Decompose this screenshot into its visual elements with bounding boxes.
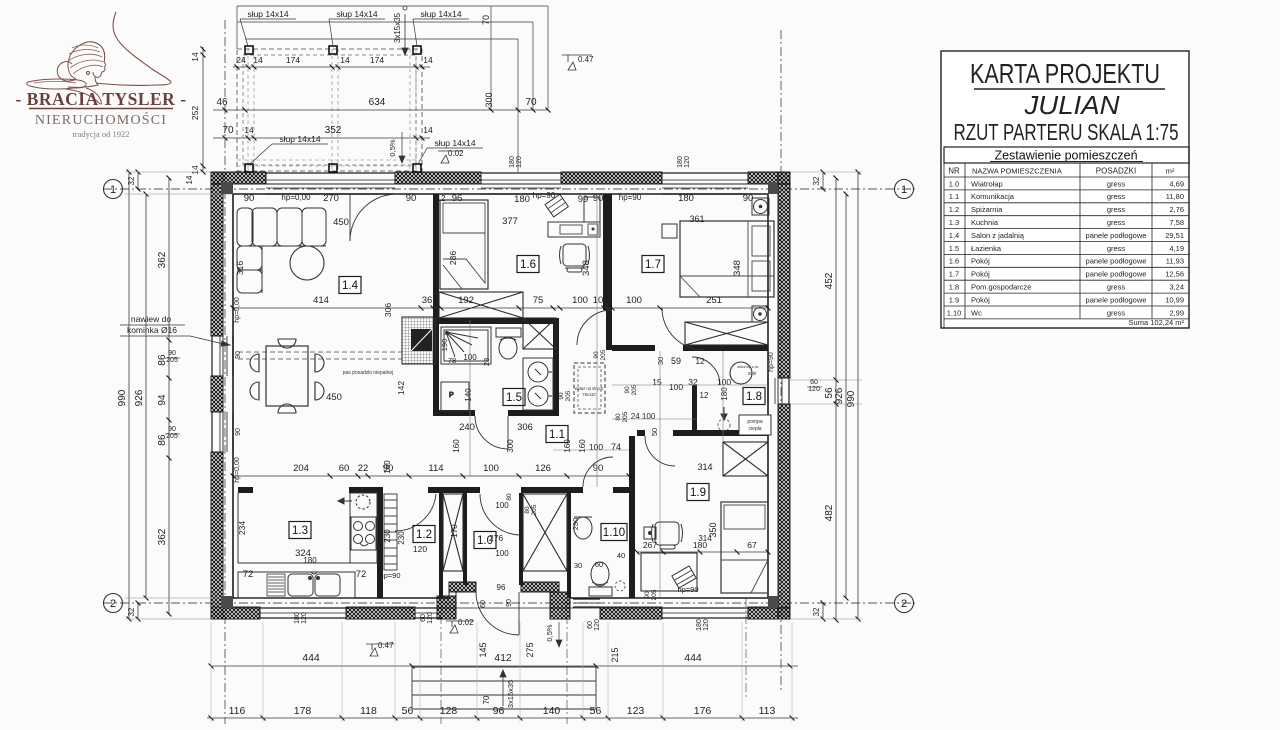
svg-text:90: 90 (506, 599, 513, 607)
double bed room 1.7 (680, 221, 774, 297)
wall living|1.6 vertical (433, 194, 439, 324)
svg-text:60: 60 (339, 463, 350, 474)
svg-text:450: 450 (326, 392, 342, 403)
svg-text:348: 348 (732, 260, 743, 276)
svg-text:1.3: 1.3 (292, 525, 308, 537)
entrance recess upper wall right (521, 582, 559, 592)
room label 1.6 (517, 256, 539, 273)
svg-text:100: 100 (483, 463, 499, 474)
svg-text:205: 205 (622, 411, 629, 422)
svg-text:32: 32 (127, 176, 136, 185)
door arc pantry (395, 494, 436, 531)
svg-text:234: 234 (237, 521, 247, 535)
svg-text:180: 180 (720, 387, 729, 401)
svg-text:1.4: 1.4 (342, 280, 359, 292)
svg-text:60: 60 (595, 560, 603, 569)
svg-text:Pokój: Pokój (971, 257, 990, 266)
svg-text:300: 300 (484, 92, 494, 107)
room label 1.3 (289, 522, 311, 539)
svg-text:12: 12 (437, 194, 446, 203)
porch dashed horizontals (237, 159, 422, 161)
svg-text:300: 300 (506, 439, 515, 453)
svg-text:2,99: 2,99 (1169, 308, 1184, 317)
svg-text:KARTA PROJEKTU: KARTA PROJEKTU (970, 58, 1160, 89)
office chair room 1.9 (652, 522, 683, 549)
floor drain wc (615, 581, 625, 591)
svg-text:Wc: Wc (971, 308, 982, 317)
wardrobe room 1.6 (439, 292, 523, 318)
right dim chain 926 (845, 194, 847, 598)
svg-text:990: 990 (117, 389, 128, 406)
svg-text:100: 100 (589, 442, 603, 452)
svg-text:120: 120 (301, 612, 308, 624)
bed room 1.6 (440, 200, 488, 289)
door arc wiatrolap (480, 494, 521, 535)
svg-text:Pokój: Pokój (971, 270, 990, 279)
svg-text:1.10: 1.10 (603, 527, 625, 539)
svg-text:286: 286 (448, 251, 458, 265)
svg-text:80: 80 (506, 493, 513, 501)
svg-text:1.8: 1.8 (746, 391, 762, 403)
svg-text:11,80: 11,80 (1166, 192, 1184, 201)
svg-text:3,24: 3,24 (1169, 283, 1184, 292)
ceiling vent room 1.7 top (752, 198, 769, 215)
room label 1.9 (687, 484, 709, 501)
svg-text:362: 362 (157, 528, 168, 545)
svg-text:90: 90 (743, 193, 754, 204)
window top 180 room 1.6 (481, 173, 561, 194)
svg-text:panele podłogowe: panele podłogowe (1086, 270, 1147, 279)
right 32 labels (822, 172, 824, 189)
exterior wall right inner masonry line (767, 194, 769, 598)
svg-text:- BRACIA TYSLER -: - BRACIA TYSLER - (15, 89, 186, 109)
corridor chain y476 (233, 475, 629, 477)
svg-text:80: 80 (524, 506, 531, 514)
door arc room 1.6 (577, 310, 612, 345)
interior extension line vertical x470 (469, 320, 471, 476)
bottom dim line 444 412 444 (211, 665, 798, 667)
svg-text:180: 180 (509, 156, 516, 168)
svg-text:słup 14x14: słup 14x14 (247, 9, 288, 19)
svg-text:444: 444 (302, 652, 320, 664)
window top 270 living room (266, 173, 395, 194)
svg-text:178: 178 (294, 705, 312, 717)
left dim chain 990 (128, 172, 130, 619)
window bottom 180/120 room 1.9 (662, 608, 748, 618)
window bottom 60/120 wc (573, 599, 600, 607)
bottom steps (412, 667, 596, 709)
svg-text:2: 2 (110, 598, 116, 610)
svg-text:116: 116 (229, 705, 246, 717)
svg-text:hp=90: hp=90 (533, 191, 556, 200)
svg-text:14: 14 (185, 175, 194, 184)
svg-text:215: 215 (610, 647, 620, 662)
table grid lines (944, 163, 1189, 328)
svg-text:100: 100 (495, 501, 509, 510)
axis line 1 horizontal (103, 188, 915, 190)
svg-text:1.1: 1.1 (949, 192, 959, 201)
svg-text:1.8: 1.8 (949, 283, 959, 292)
svg-text:120: 120 (516, 156, 523, 168)
svg-text:180: 180 (677, 156, 684, 168)
entrance recess upper wall left (449, 582, 476, 592)
svg-text:96: 96 (497, 583, 506, 592)
svg-text:12: 12 (700, 391, 709, 400)
svg-text:40: 40 (617, 551, 625, 560)
svg-text:90: 90 (593, 351, 600, 359)
svg-text:60: 60 (587, 621, 594, 629)
svg-text:252: 252 (190, 106, 200, 120)
wall 1.7 bottom left segment (612, 345, 655, 351)
svg-text:ciepła: ciepła (748, 426, 761, 432)
masonry corner block top-right (768, 182, 778, 194)
svg-text:72: 72 (356, 569, 367, 580)
svg-text:80: 80 (615, 413, 622, 421)
exterior wall left hatch segments (211, 172, 223, 336)
dim chain y308 living-160 (233, 307, 768, 309)
svg-text:160: 160 (578, 439, 587, 453)
svg-text:2,76: 2,76 (1169, 205, 1184, 214)
svg-text:32: 32 (688, 377, 698, 387)
svg-text:180: 180 (514, 194, 530, 205)
svg-text:123: 123 (627, 705, 645, 717)
svg-text:180: 180 (303, 556, 317, 565)
svg-text:180: 180 (678, 193, 694, 204)
svg-text:12: 12 (603, 299, 610, 307)
svg-text:60: 60 (480, 600, 487, 608)
window right 60/120 (768, 378, 789, 404)
svg-text:15: 15 (652, 377, 662, 387)
svg-text:348: 348 (581, 260, 592, 276)
svg-text:1.9: 1.9 (949, 295, 959, 304)
svg-text:hp=0,00: hp=0,00 (234, 457, 241, 483)
porch column bottom left (245, 164, 253, 172)
svg-text:200l: 200l (748, 371, 757, 376)
right dim chain 990 (857, 172, 859, 619)
svg-text:56: 56 (590, 705, 602, 717)
wall 1.7 bottom right segment (683, 345, 768, 351)
window bottom 60/120 pantry (415, 608, 442, 618)
svg-text:90: 90 (168, 350, 176, 357)
svg-text:90: 90 (235, 428, 242, 436)
axis vertical bottom x567 (566, 598, 568, 724)
room label 1.8 (743, 388, 765, 405)
exterior wall left inner masonry line (232, 194, 234, 598)
svg-text:120: 120 (413, 544, 427, 554)
axis vertical bottom x746 (745, 598, 747, 700)
room label 1.1 (546, 426, 568, 443)
svg-text:314: 314 (698, 534, 712, 543)
svg-text:24 100: 24 100 (631, 412, 656, 421)
bottom extension lines (210, 622, 212, 722)
exterior wall bottom hatch segments (211, 607, 260, 619)
svg-text:362: 362 (157, 251, 168, 268)
axis circle 1 right (895, 180, 914, 199)
svg-text:70: 70 (481, 15, 491, 25)
svg-text:120: 120 (684, 156, 691, 168)
room label 1.5 (503, 389, 525, 406)
svg-text:113: 113 (759, 705, 776, 717)
svg-text:słup 14x14: słup 14x14 (279, 134, 320, 144)
svg-text:29,51: 29,51 (1165, 231, 1184, 240)
svg-text:190: 190 (440, 339, 449, 352)
svg-text:10,99: 10,99 (1165, 295, 1184, 304)
svg-text:174: 174 (286, 55, 300, 65)
fireplace dark core (411, 329, 432, 351)
svg-text:32: 32 (812, 176, 821, 185)
svg-text:1.2: 1.2 (416, 529, 432, 541)
wall 1.8 left (692, 385, 697, 435)
svg-text:128: 128 (440, 705, 458, 717)
svg-text:926: 926 (134, 389, 145, 406)
nightstand room 1.7 (662, 224, 677, 238)
washing machine bathroom (441, 382, 469, 411)
svg-text:panele podłogowe: panele podłogowe (1086, 231, 1147, 240)
svg-text:267: 267 (643, 540, 657, 550)
svg-text:444: 444 (684, 652, 702, 664)
axis line 2 horizontal (103, 602, 915, 604)
svg-text:100: 100 (495, 549, 509, 558)
svg-text:634: 634 (369, 97, 386, 108)
svg-text:1.7: 1.7 (645, 259, 661, 271)
kitchen counter line (238, 493, 350, 563)
porch column bottom right (413, 164, 421, 172)
svg-text:0.02: 0.02 (458, 618, 474, 627)
svg-text:14: 14 (340, 55, 350, 65)
dining chairs (278, 339, 296, 348)
svg-text:1.0: 1.0 (949, 179, 959, 188)
svg-text:100: 100 (717, 377, 731, 387)
entrance recess jamb lines (455, 592, 457, 598)
svg-text:1.7: 1.7 (949, 270, 959, 279)
svg-text:100: 100 (626, 295, 642, 306)
svg-text:1.6: 1.6 (949, 257, 959, 266)
svg-text:10: 10 (593, 295, 604, 306)
svg-text:70: 70 (482, 695, 491, 704)
svg-text:74: 74 (611, 442, 621, 452)
door arc bathroom (475, 416, 508, 449)
svg-text:14: 14 (244, 125, 254, 135)
kitchen dishwasher striped (267, 574, 285, 596)
wardrobe room 1.9 (723, 442, 768, 476)
logo Bracia Tysler illustration (27, 12, 171, 104)
svg-text:316: 316 (235, 261, 245, 275)
dining table (266, 346, 308, 406)
svg-text:306: 306 (517, 422, 533, 433)
svg-text:414: 414 (313, 295, 329, 306)
svg-text:230: 230 (571, 518, 580, 531)
svg-text:14: 14 (190, 52, 200, 62)
wall bathroom left (433, 324, 439, 416)
porch column top left (245, 46, 253, 54)
svg-text:0.47: 0.47 (378, 641, 394, 650)
svg-text:hp=0,00: hp=0,00 (281, 193, 311, 202)
axis vertical right wall (780, 30, 782, 690)
wall 1.9 top right segment (673, 430, 768, 436)
svg-text:0.02: 0.02 (448, 149, 464, 158)
svg-text:hp=90: hp=90 (379, 571, 400, 580)
attic access dashed hatch (574, 363, 605, 413)
svg-text:94: 94 (157, 394, 168, 406)
door arc wc (583, 457, 613, 487)
door arc room 1.8 (692, 357, 720, 385)
porch dashed column lines verticals (247, 49, 249, 171)
svg-text:0,5%: 0,5% (388, 139, 397, 156)
heat pump room 1.8 (739, 415, 771, 435)
svg-text:12: 12 (696, 357, 705, 366)
svg-text:Suma 102,24 m²: Suma 102,24 m² (1129, 318, 1185, 327)
porch dimension chain 46 634 300 70 (213, 109, 548, 111)
toilet bathroom (496, 328, 521, 359)
exterior wall top inner masonry line (233, 193, 768, 195)
svg-text:180: 180 (696, 619, 703, 631)
svg-text:4,19: 4,19 (1169, 244, 1184, 253)
svg-text:hp=90: hp=90 (768, 352, 775, 372)
svg-text:96: 96 (493, 705, 505, 717)
laptop room 1.9 tilted (672, 566, 696, 588)
svg-text:pas posadzki niepalnej: pas posadzki niepalnej (343, 370, 394, 376)
svg-text:56: 56 (402, 705, 414, 717)
masonry corner block top-left (221, 182, 233, 194)
svg-text:140: 140 (464, 388, 473, 402)
svg-text:zbiornik c.w.: zbiornik c.w. (737, 364, 759, 369)
wall corridor south: 1.0 right to wc (521, 487, 583, 493)
right extension lines (790, 379, 862, 381)
svg-text:P: P (449, 392, 454, 399)
svg-text:120: 120 (594, 619, 601, 631)
sofa corner living room (237, 208, 326, 293)
wall kitchen|pantry vertical (377, 493, 383, 598)
svg-text:Zestawienie pomieszczeń: Zestawienie pomieszczeń (994, 149, 1137, 163)
closet corner 1.6/corridor (523, 318, 556, 349)
wall pantry|closet vertical (439, 493, 443, 598)
svg-text:m²: m² (1166, 167, 1175, 176)
svg-text:230: 230 (397, 531, 406, 545)
svg-text:1.4: 1.4 (949, 231, 959, 240)
svg-text:kominka Ø16: kominka Ø16 (127, 325, 177, 335)
svg-text:192: 192 (458, 295, 474, 306)
kitchen double sink (288, 572, 340, 596)
interior extension line horizontal y450 (553, 449, 629, 451)
svg-text:hp=0,00: hp=0,00 (234, 297, 241, 323)
wall bathroom top (433, 318, 559, 324)
wall closet2|wc vertical (567, 493, 571, 598)
axis vertical left wall (224, 20, 226, 724)
wardrobe room 1.7 (685, 322, 768, 345)
svg-text:0,5%: 0,5% (545, 624, 554, 641)
svg-text:120: 120 (427, 612, 434, 624)
wall 1.6|1.7 double (603, 194, 612, 310)
svg-text:90: 90 (558, 392, 565, 400)
svg-text:361: 361 (689, 214, 704, 224)
svg-text:36: 36 (422, 295, 433, 306)
title block frame (941, 51, 1189, 328)
svg-text:90: 90 (644, 591, 651, 599)
door arc entrance exterior (476, 592, 519, 635)
steps arrow and 3x15x35 (500, 670, 506, 706)
svg-text:NAZWA POMIESZCZENIA: NAZWA POMIESZCZENIA (972, 167, 1062, 176)
svg-text:12,56: 12,56 (1165, 270, 1184, 279)
svg-text:2: 2 (901, 598, 907, 610)
left dim chain 362 86 94 86 362 (168, 178, 170, 614)
closet wiatrolap left (443, 494, 463, 571)
svg-text:251: 251 (706, 295, 722, 306)
wall wc|1.9 vertical (629, 436, 635, 598)
svg-text:70: 70 (222, 125, 234, 136)
svg-text:gress: gress (1107, 192, 1126, 201)
table Zestawienie pomieszczen (944, 147, 1189, 163)
svg-text:100: 100 (572, 295, 588, 306)
svg-text:50: 50 (650, 428, 659, 436)
room label 1.7 (642, 256, 664, 273)
masonry corner block bottom-left (221, 596, 233, 608)
interior extension line vertical x723 (722, 351, 724, 442)
svg-text:59: 59 (671, 356, 681, 366)
room label 1.2 (413, 526, 435, 543)
small table room 1.9 (644, 527, 656, 539)
exterior wall top hatch segments (211, 172, 266, 184)
svg-text:75: 75 (533, 295, 544, 306)
svg-text:gress: gress (1107, 283, 1126, 292)
svg-text:1.9: 1.9 (690, 487, 706, 499)
closet wiatrolap right (523, 494, 567, 571)
svg-text:160: 160 (452, 439, 461, 453)
tilted book on desk 1.6 (545, 194, 568, 217)
svg-text:słup 14x14: słup 14x14 (420, 9, 461, 19)
svg-text:gress: gress (1107, 205, 1126, 214)
interior extension line horizontal y385 (612, 384, 768, 386)
svg-text:pompa: pompa (747, 419, 763, 425)
office chair room 1.6 (560, 244, 590, 272)
svg-text:160: 160 (563, 439, 572, 453)
svg-text:926: 926 (834, 387, 845, 404)
svg-text:67: 67 (747, 540, 757, 550)
svg-text:28: 28 (482, 358, 491, 366)
svg-text:gress: gress (1107, 179, 1126, 188)
svg-text:276: 276 (489, 533, 503, 543)
svg-text:205: 205 (531, 504, 538, 515)
svg-text:1.10: 1.10 (947, 308, 962, 317)
wall 1.0|closet2 vertical (519, 493, 523, 585)
svg-text:412: 412 (494, 652, 512, 664)
vanity sinks bathroom (523, 358, 553, 410)
svg-text:11,93: 11,93 (1166, 257, 1184, 266)
svg-text:14: 14 (423, 125, 433, 135)
pas posadzki dashed lines living room (238, 351, 402, 353)
wall bathroom right (553, 318, 559, 416)
wall closet|1.0 vertical (463, 493, 467, 585)
svg-text:230: 230 (383, 529, 392, 543)
svg-text:14: 14 (190, 165, 200, 175)
right dim chain 452 56 482 (835, 178, 837, 620)
svg-text:Wiatrołap: Wiatrołap (971, 179, 1003, 188)
svg-text:72: 72 (243, 569, 254, 580)
interior dim line y548 room 1.9 (637, 551, 768, 553)
svg-text:120: 120 (703, 619, 710, 631)
porch roof dashed outline (237, 49, 422, 171)
svg-text:32: 32 (127, 607, 136, 616)
svg-text:Salon z jadalnią: Salon z jadalnią (971, 231, 1025, 240)
svg-text:30: 30 (574, 561, 582, 570)
svg-text:1.5: 1.5 (506, 392, 522, 404)
svg-text:7,58: 7,58 (1169, 218, 1184, 227)
svg-text:275: 275 (525, 642, 535, 657)
room label 1.4 (339, 277, 361, 294)
svg-text:90: 90 (235, 351, 242, 359)
desk room 1.6 (548, 222, 600, 237)
svg-text:90: 90 (593, 193, 604, 204)
svg-text:30: 30 (656, 357, 665, 365)
